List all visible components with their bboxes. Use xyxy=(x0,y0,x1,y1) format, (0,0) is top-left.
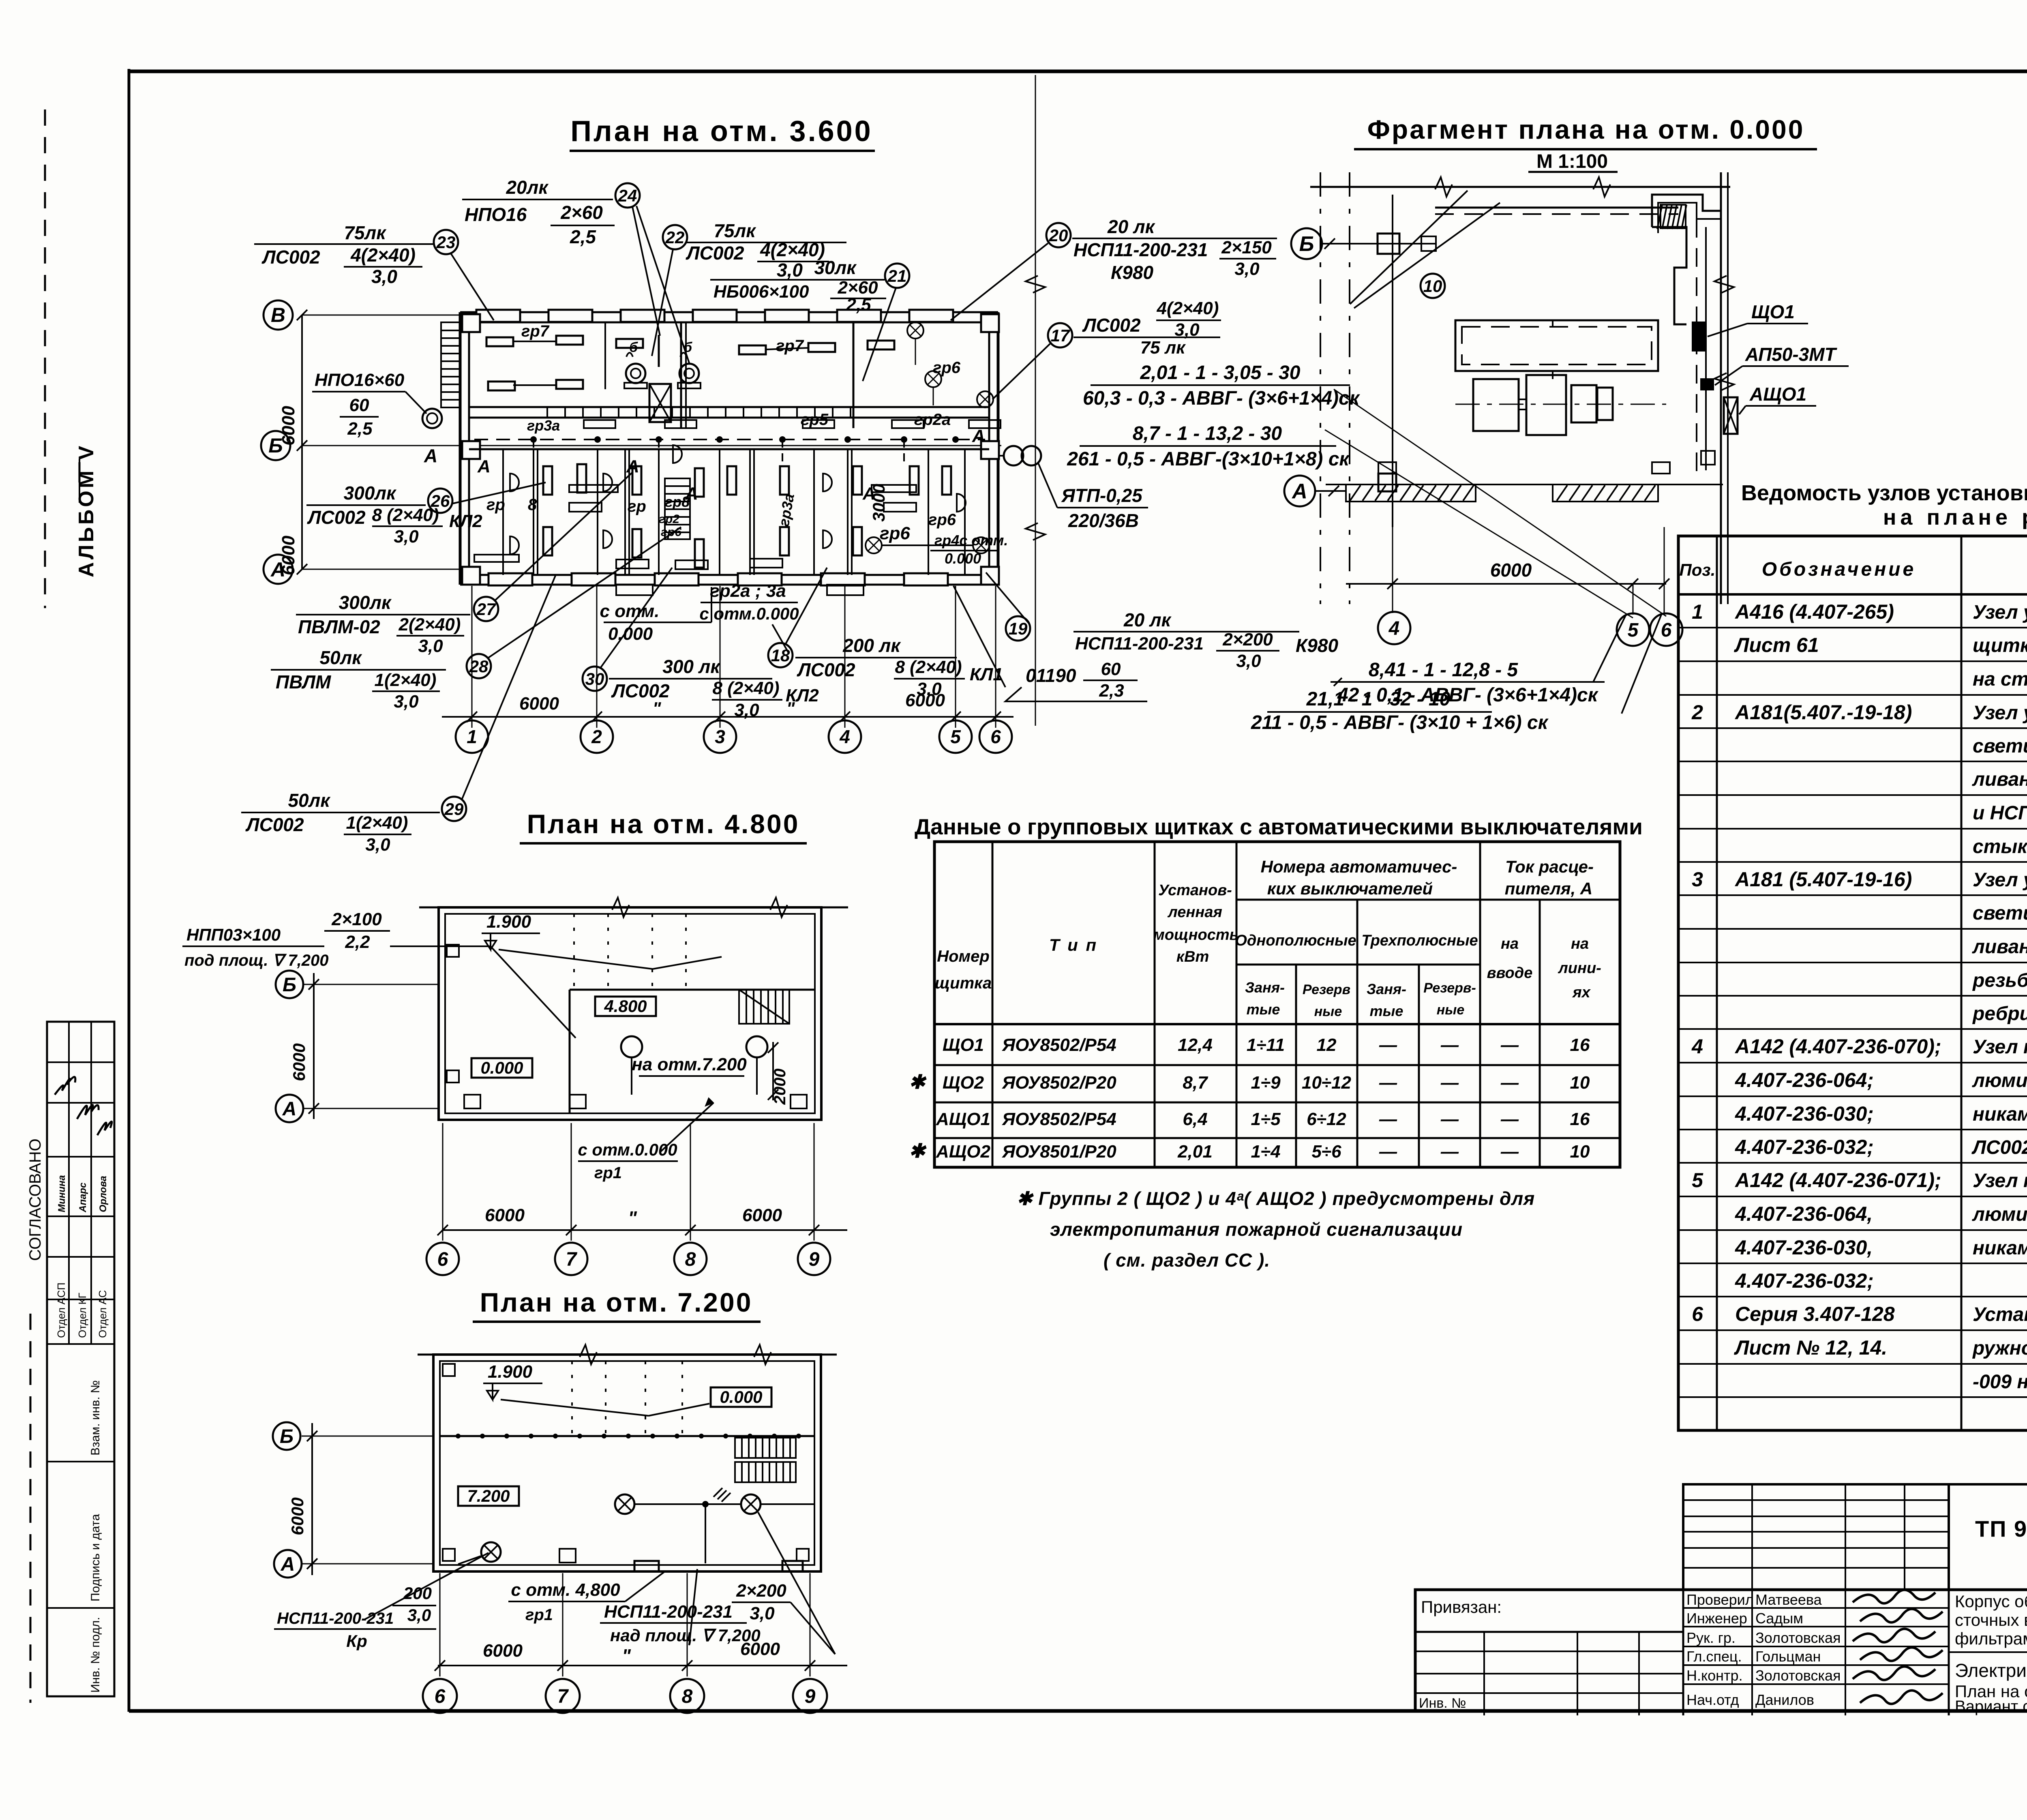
fragment grid circle A xyxy=(1284,476,1315,506)
svg-text:План на отм. 4.800: План на отм. 4.800 xyxy=(527,809,800,839)
svg-text:4.800: 4.800 xyxy=(604,997,647,1016)
title block signatures xyxy=(1853,1590,1935,1603)
svg-text:Фрагмент плана на отм. 0.00: Фрагмент плана на отм. 0.000 xyxy=(1367,114,1805,144)
callout circle 27 xyxy=(474,597,498,621)
svg-text:3,0: 3,0 xyxy=(371,266,397,287)
callout circle 21 xyxy=(885,264,909,288)
svg-text:4.407-236-064,: 4.407-236-064, xyxy=(1735,1203,1873,1225)
svg-text:КЛ2: КЛ2 xyxy=(786,686,819,705)
plan4800 axis circle 7 xyxy=(555,1243,587,1275)
svg-text:75лк: 75лк xyxy=(714,220,756,241)
svg-text:Привязан:: Привязан: xyxy=(1421,1597,1502,1616)
svg-text:—: — xyxy=(1500,1073,1519,1093)
plan7200 partitions dashed xyxy=(571,1361,573,1436)
title block small revision table xyxy=(1683,1484,1949,1590)
svg-text:—: — xyxy=(1440,1109,1459,1129)
svg-text:2×200: 2×200 xyxy=(736,1581,786,1601)
svg-text:Вариант с 4 вакуум-фильтрами: Вариант с 4 вакуум-фильтрами xyxy=(1955,1698,2027,1715)
plan4800 axis circle 9 xyxy=(798,1243,830,1275)
svg-text:АЩО1: АЩО1 xyxy=(1749,384,1806,405)
svg-text:28: 28 xyxy=(469,657,489,676)
svg-text:✱ Группы 2 ( ЩО2 ) и 4ᵃ( А: ✱ Группы 2 ( ЩО2 ) и 4ᵃ( АЩО2 ) предусмо… xyxy=(1017,1188,1535,1209)
svg-text:Б: Б xyxy=(268,434,283,457)
fragment axis circle 5 xyxy=(1617,613,1649,646)
svg-text:": " xyxy=(628,1207,637,1228)
svg-text:6: 6 xyxy=(990,726,1001,747)
svg-text:7: 7 xyxy=(557,1686,569,1707)
svg-text:Т и п: Т и п xyxy=(1049,935,1098,954)
grid circle V xyxy=(264,300,293,330)
svg-text:✱: ✱ xyxy=(909,1140,927,1162)
svg-text:гр1: гр1 xyxy=(594,1164,622,1182)
svg-text:4.407-236-064;: 4.407-236-064; xyxy=(1735,1069,1874,1091)
svg-text:Рук. гр.: Рук. гр. xyxy=(1686,1629,1736,1646)
fragment right wall xyxy=(1720,172,1722,604)
callout circle 20 xyxy=(1046,223,1071,247)
svg-text:ЩО1: ЩО1 xyxy=(943,1035,984,1055)
svg-text:Корпус обезвоживания осадка: Корпус обезвоживания осадка xyxy=(1955,1592,2027,1611)
middle table grid xyxy=(934,842,1620,1167)
svg-text:АЩО1: АЩО1 xyxy=(936,1109,990,1129)
svg-text:Взам. инв. №: Взам. инв. № xyxy=(89,1380,102,1456)
svg-text:гр3а: гр3а xyxy=(776,492,797,527)
svg-text:на: на xyxy=(1501,935,1519,952)
svg-text:12: 12 xyxy=(1317,1035,1337,1055)
svg-text:б: б xyxy=(629,340,638,355)
svg-text:1÷11: 1÷11 xyxy=(1247,1035,1285,1055)
svg-text:6000: 6000 xyxy=(483,1641,523,1661)
svg-text:с отм. 4,800: с отм. 4,800 xyxy=(511,1580,620,1600)
svg-text:ких выключателей: ких выключателей xyxy=(1267,879,1433,898)
entrance porches bottom xyxy=(616,585,653,595)
svg-text:ЯОУ8501/Р20: ЯОУ8501/Р20 xyxy=(1002,1142,1116,1162)
svg-text:0.000: 0.000 xyxy=(480,1058,523,1077)
stamp signatures xyxy=(55,1077,75,1095)
svg-text:2×200: 2×200 xyxy=(1222,630,1273,650)
fragment top wall line xyxy=(1310,186,1730,188)
svg-text:НСП11-200-231: НСП11-200-231 xyxy=(277,1610,394,1627)
svg-text:2,3: 2,3 xyxy=(1099,681,1124,701)
svg-text:тые: тые xyxy=(1247,1001,1280,1018)
svg-text:": " xyxy=(622,1645,631,1666)
svg-text:План на отм. 3.600: План на отм. 3.600 xyxy=(570,115,872,148)
svg-text:гр5: гр5 xyxy=(801,411,829,429)
svg-text:6÷12: 6÷12 xyxy=(1307,1109,1346,1129)
plan4800 level box 0.000 xyxy=(471,1058,532,1078)
main plan bottom axis lines and dimension xyxy=(471,586,473,728)
callout circle 28 xyxy=(467,654,491,678)
svg-text:211 - 0,5 - АВВГ- (3×10 + 1×6): 211 - 0,5 - АВВГ- (3×10 + 1×6) ск xyxy=(1251,712,1549,733)
svg-text:3,0: 3,0 xyxy=(365,835,390,855)
plan7200 door notches bottom xyxy=(634,1561,659,1571)
leader 20 xyxy=(951,243,1048,320)
plan7200 stairs xyxy=(735,1438,796,1458)
svg-text:Лист 61: Лист 61 xyxy=(1734,634,1819,656)
svg-text:гр6: гр6 xyxy=(661,525,681,539)
plan4800 stairs xyxy=(739,990,789,1024)
svg-text:3: 3 xyxy=(715,726,725,747)
svg-text:В: В xyxy=(271,304,285,326)
svg-text:лини-: лини- xyxy=(1558,960,1601,977)
svg-text:тые: тые xyxy=(1370,1003,1403,1019)
fragment floor line and hatch xyxy=(1326,484,1723,485)
svg-text:Обозначение: Обозначение xyxy=(1762,559,1916,580)
svg-text:2: 2 xyxy=(591,726,602,747)
svg-text:Номер: Номер xyxy=(937,948,990,965)
svg-text:8 (2×40): 8 (2×40) xyxy=(712,678,779,698)
svg-text:А: А xyxy=(972,426,985,446)
svg-text:Золотовская: Золотовская xyxy=(1755,1629,1841,1646)
svg-text:ребристых плит.: ребристых плит. xyxy=(1972,1003,2027,1025)
svg-text:ЛС002 (2×80): ЛС002 (2×80) xyxy=(1971,1137,2027,1158)
svg-text:6000: 6000 xyxy=(485,1205,525,1225)
plan7200 grid circle A xyxy=(274,1550,302,1578)
svg-text:на: на xyxy=(1571,935,1589,952)
plan7200 corner boxes xyxy=(443,1364,455,1376)
svg-text:Электрическое освещение.: Электрическое освещение. xyxy=(1955,1660,2027,1681)
title block description xyxy=(1949,1651,2027,1653)
svg-text:Ток расце-: Ток расце- xyxy=(1505,857,1594,876)
svg-text:8 (2×40): 8 (2×40) xyxy=(372,505,439,525)
svg-text:ЛС002: ЛС002 xyxy=(261,247,320,268)
leader 01190 xyxy=(954,586,1005,687)
svg-text:2,01: 2,01 xyxy=(1177,1142,1213,1162)
svg-text:1: 1 xyxy=(1692,600,1703,623)
svg-text:ЯОУ8502/Р54: ЯОУ8502/Р54 xyxy=(1002,1109,1116,1129)
svg-text:3,0: 3,0 xyxy=(1236,651,1261,671)
svg-text:Золотовская: Золотовская xyxy=(1755,1667,1841,1684)
svg-text:Инв. №: Инв. № xyxy=(1419,1696,1466,1711)
plan7200 grid circle B xyxy=(273,1422,300,1450)
svg-text:8: 8 xyxy=(528,496,537,514)
axis circle 5 xyxy=(939,720,972,753)
svg-text:6: 6 xyxy=(435,1686,446,1707)
svg-text:ЛС002: ЛС002 xyxy=(686,242,744,264)
left margin stamp table xyxy=(47,1022,114,1696)
svg-text:24: 24 xyxy=(618,186,637,205)
svg-text:А: А xyxy=(477,457,491,476)
svg-text:2×150: 2×150 xyxy=(1221,238,1272,257)
svg-text:9: 9 xyxy=(809,1249,820,1270)
svg-text:2,5: 2,5 xyxy=(570,226,596,247)
svg-text:22: 22 xyxy=(665,228,685,247)
svg-text:220/36В: 220/36В xyxy=(1068,510,1139,531)
svg-text:А: А xyxy=(1291,480,1307,503)
svg-text:гр: гр xyxy=(628,497,646,515)
plan7200 level box 0.000 xyxy=(711,1387,771,1407)
title block staff rows xyxy=(1683,1607,1949,1609)
plan4800 interior walls xyxy=(570,989,815,991)
svg-text:6,4: 6,4 xyxy=(1183,1109,1207,1129)
svg-text:21,1 - 1 - 32 - 10: 21,1 - 1 - 32 - 10 xyxy=(1306,688,1451,710)
svg-text:вводе: вводе xyxy=(1487,965,1533,982)
fragment dimension 6000 xyxy=(1346,583,1666,585)
svg-text:НПП03×100: НПП03×100 xyxy=(186,925,281,944)
fragment circled 10 xyxy=(1421,274,1445,298)
svg-text:гр6: гр6 xyxy=(880,523,910,543)
svg-text:Б: Б xyxy=(1299,232,1314,256)
svg-text:6000: 6000 xyxy=(288,1497,307,1535)
svg-text:гр2: гр2 xyxy=(659,512,679,526)
svg-text:6000: 6000 xyxy=(740,1639,780,1659)
svg-text:300лк: 300лк xyxy=(339,592,392,613)
svg-text:фильтрами БСХОУ-40-3.: фильтрами БСХОУ-40-3. xyxy=(1955,1629,2027,1648)
plan7200 lamps xyxy=(615,1494,634,1514)
svg-text:Инв. № подл.: Инв. № подл. xyxy=(89,1617,102,1693)
plan4800 axis circle 8 xyxy=(674,1243,707,1275)
interior stair hatch xyxy=(665,478,690,539)
title block left privyazan xyxy=(1415,1631,1683,1633)
svg-text:—: — xyxy=(1379,1142,1397,1162)
svg-text:20лк: 20лк xyxy=(506,177,549,198)
plan7200 axis circle 8 xyxy=(670,1679,704,1713)
fragment grid dashed verticals xyxy=(1320,172,1321,604)
svg-text:Номера автоматичес-: Номера автоматичес- xyxy=(1261,857,1457,876)
svg-text:НПО16: НПО16 xyxy=(465,204,527,225)
svg-text:Гольцман: Гольцман xyxy=(1755,1648,1821,1665)
fragment axis B line xyxy=(1322,243,1435,244)
svg-text:НПО16×60: НПО16×60 xyxy=(315,370,405,390)
svg-text:ЛС002: ЛС002 xyxy=(307,507,366,528)
panel AShchO1 crossbox xyxy=(1724,397,1738,434)
fragment column axis 4 vertical xyxy=(1392,195,1393,527)
svg-text:гр7: гр7 xyxy=(776,337,804,355)
plan4800 dashed partitions xyxy=(573,914,575,990)
svg-text:60: 60 xyxy=(1101,659,1121,679)
fragment crane beam dashed rect xyxy=(1455,320,1658,371)
svg-text:5: 5 xyxy=(1692,1169,1703,1192)
svg-text:17: 17 xyxy=(1051,326,1070,345)
svg-text:гр7: гр7 xyxy=(521,322,550,340)
svg-text:КЛ2: КЛ2 xyxy=(449,511,482,531)
svg-text:ЩО2: ЩО2 xyxy=(943,1073,984,1093)
plan7200 axis circle 6 xyxy=(423,1679,457,1713)
plan7200 dim line bottom xyxy=(438,1665,847,1666)
svg-text:гр4с отм.: гр4с отм. xyxy=(934,532,1008,549)
svg-text:75лк: 75лк xyxy=(344,222,387,243)
svg-text:кВт: кВт xyxy=(1176,948,1209,965)
svg-text:ЛС002: ЛС002 xyxy=(1082,315,1141,336)
leader 30 xyxy=(601,568,672,667)
plan4800 left dim xyxy=(313,973,315,1119)
svg-text:Резерв-: Резерв- xyxy=(1423,980,1476,996)
svg-text:Б: Б xyxy=(283,974,296,996)
svg-text:гр: гр xyxy=(486,496,505,514)
svg-text:ЯТП-0,25: ЯТП-0,25 xyxy=(1061,485,1143,506)
svg-text:А142 (4.407-236-070);: А142 (4.407-236-070); xyxy=(1734,1035,1941,1058)
svg-text:гр3а: гр3а xyxy=(527,417,560,434)
svg-text:А: А xyxy=(424,445,437,466)
svg-text:гр1: гр1 xyxy=(525,1606,553,1624)
svg-text:Трехполюсные: Трехполюсные xyxy=(1361,932,1478,949)
svg-text:Минина: Минина xyxy=(56,1175,67,1212)
svg-text:на плане расположения: на плане расположения xyxy=(1883,505,2027,529)
svg-text:3: 3 xyxy=(1692,868,1703,891)
svg-text:А142 (4.407-236-071);: А142 (4.407-236-071); xyxy=(1734,1169,1941,1192)
leader YaTP xyxy=(1038,462,1057,508)
svg-text:—: — xyxy=(1379,1073,1397,1093)
section line right of main plan xyxy=(1035,75,1036,726)
plan7200 interior corridor line xyxy=(440,1435,814,1437)
svg-text:8 (2×40): 8 (2×40) xyxy=(895,657,962,677)
fragment column squares xyxy=(1378,234,1399,254)
grid circle B xyxy=(261,431,290,460)
svg-text:2,5: 2,5 xyxy=(347,419,373,439)
svg-text:—: — xyxy=(1440,1035,1459,1055)
leader 28 xyxy=(489,527,681,658)
svg-text:": " xyxy=(653,699,662,718)
svg-text:2,5: 2,5 xyxy=(846,295,871,315)
main plan building walls xyxy=(460,311,998,313)
svg-text:НБ006×100: НБ006×100 xyxy=(714,282,809,302)
plan4800 dim 2000 xyxy=(772,1042,774,1100)
svg-text:Нач.отд: Нач.отд xyxy=(1686,1691,1739,1708)
svg-text:10: 10 xyxy=(1570,1142,1590,1162)
plan4800 grid circle B xyxy=(276,971,303,998)
leader 24 xyxy=(632,207,660,336)
svg-text:4(2×40): 4(2×40) xyxy=(350,244,416,266)
svg-text:200 лк: 200 лк xyxy=(842,635,901,656)
small lamp rects lower center xyxy=(569,503,602,512)
vedomost table grid xyxy=(1678,536,2027,1430)
svg-text:под площ. ∇ 7,200: под площ. ∇ 7,200 xyxy=(184,952,329,969)
svg-text:8,41 - 1 - 12,8 - 5: 8,41 - 1 - 12,8 - 5 xyxy=(1369,659,1519,681)
svg-text:ТП 902-5-36.86: ТП 902-5-36.86 xyxy=(1975,1516,2027,1541)
fragment upper right wall complex xyxy=(1652,195,1721,227)
vertical fluorescent lamps lower rooms xyxy=(543,466,552,495)
svg-text:гр2а ; 3а: гр2а ; 3а xyxy=(710,581,786,601)
callout circle 30 xyxy=(583,667,607,691)
entry lamp circle xyxy=(422,409,442,428)
plan7200 top line break xyxy=(418,1354,837,1356)
svg-text:резьбе под перекрытием из: резьбе под перекрытием из xyxy=(1972,970,2027,991)
svg-text:✱: ✱ xyxy=(909,1072,927,1093)
svg-text:гр8: гр8 xyxy=(665,493,690,510)
svg-text:2(2×40): 2(2×40) xyxy=(399,615,461,635)
svg-text:Орлова: Орлова xyxy=(98,1176,109,1212)
fragment B axis leaders crossing xyxy=(1334,389,1666,616)
svg-text:мощность: мощность xyxy=(1153,926,1239,943)
svg-text:4: 4 xyxy=(839,726,850,747)
svg-text:никами ЛС002(2×40),: никами ЛС002(2×40), xyxy=(1973,1104,2027,1125)
svg-text:К980: К980 xyxy=(1111,262,1153,283)
svg-text:( см. раздел СС ).: ( см. раздел СС ). xyxy=(1103,1250,1270,1271)
svg-text:ные: ные xyxy=(1437,1002,1464,1018)
fragment grid circle B xyxy=(1291,228,1322,259)
svg-text:А: А xyxy=(270,558,285,581)
svg-text:20 лк: 20 лк xyxy=(1123,609,1172,630)
corridor cable dashed line xyxy=(474,439,985,440)
svg-text:75 лк: 75 лк xyxy=(1140,338,1187,358)
svg-text:4(2×40): 4(2×40) xyxy=(1157,298,1219,318)
drawing frame xyxy=(128,69,131,1712)
svg-text:2×60: 2×60 xyxy=(560,202,603,223)
title block main outline xyxy=(1415,1590,2027,1711)
svg-text:А181(5.407.-19-18): А181(5.407.-19-18) xyxy=(1734,701,1912,724)
svg-text:М 1:100: М 1:100 xyxy=(1536,151,1608,172)
svg-text:2000: 2000 xyxy=(771,1069,789,1105)
svg-text:20: 20 xyxy=(1049,226,1068,245)
svg-text:10: 10 xyxy=(1423,277,1442,296)
svg-text:19: 19 xyxy=(1009,619,1028,638)
svg-text:6: 6 xyxy=(1692,1303,1703,1325)
plan7200 left dim xyxy=(311,1423,313,1575)
svg-text:ливания НСП11-200-234 на: ливания НСП11-200-234 на xyxy=(1972,936,2027,958)
svg-text:на стене.: на стене. xyxy=(1973,669,2027,690)
svg-text:4: 4 xyxy=(1691,1035,1703,1058)
svg-text:щитков ЯОУ8501 и ЯОУ8502: щитков ЯОУ8501 и ЯОУ8502 xyxy=(1973,635,2027,656)
svg-text:1: 1 xyxy=(467,726,477,747)
svg-text:ЛС002: ЛС002 xyxy=(245,814,304,835)
lower room partitions xyxy=(502,449,504,575)
svg-text:ЛС002: ЛС002 xyxy=(611,680,670,701)
incandescent lamps right room xyxy=(907,322,924,339)
svg-text:18: 18 xyxy=(771,646,790,665)
plan4800 lamp circles xyxy=(621,1036,642,1057)
svg-text:сточных вод с 6 вакуум -: сточных вод с 6 вакуум - xyxy=(1955,1610,2027,1629)
plan7200 leaders xyxy=(365,1553,489,1619)
sheet edge dashed marks left xyxy=(44,109,46,608)
svg-text:6: 6 xyxy=(437,1249,448,1270)
svg-text:НСП11-200-231: НСП11-200-231 xyxy=(1075,634,1204,654)
svg-text:20 лк: 20 лк xyxy=(1107,216,1156,237)
plan4800 dim line bottom xyxy=(442,1229,847,1231)
svg-text:ружного освещения РКУ01-250-: ружного освещения РКУ01-250- xyxy=(1972,1338,2027,1359)
svg-text:16: 16 xyxy=(1570,1109,1590,1129)
fragment cable risers dashed xyxy=(1552,371,1553,379)
axis circle 2 xyxy=(581,720,613,753)
ventilation units center xyxy=(626,364,645,383)
svg-text:ливания НСП20-500-111на крюке,: ливания НСП20-500-111на крюке, xyxy=(1972,769,2027,790)
leader 17 xyxy=(992,344,1050,399)
lower room shelves xyxy=(569,485,618,492)
svg-text:АЛЬБОМ V: АЛЬБОМ V xyxy=(75,444,98,577)
svg-text:А: А xyxy=(281,1554,295,1575)
svg-text:6000: 6000 xyxy=(1490,560,1532,581)
svg-text:гр6: гр6 xyxy=(933,359,961,377)
svg-text:А416 (4.407-265): А416 (4.407-265) xyxy=(1734,600,1894,623)
svg-text:ях: ях xyxy=(1572,984,1591,1001)
svg-text:4: 4 xyxy=(1388,618,1400,639)
plan4800 level box 4.800 xyxy=(595,997,656,1016)
svg-text:—: — xyxy=(1500,1142,1519,1162)
svg-text:—: — xyxy=(1379,1035,1397,1055)
svg-text:3,0: 3,0 xyxy=(777,259,803,281)
svg-text:9: 9 xyxy=(805,1686,816,1707)
fragment machine group xyxy=(1473,379,1519,431)
callout circle 17 xyxy=(1048,323,1072,347)
svg-text:—: — xyxy=(1379,1109,1397,1129)
svg-text:5÷6: 5÷6 xyxy=(1311,1142,1341,1162)
plan7200 building outline xyxy=(433,1355,821,1571)
plan4800 axis circle 6 xyxy=(426,1243,459,1275)
plan7200 level box 7.200 xyxy=(458,1486,519,1506)
svg-text:-009 на кронштейне К-II.: -009 на кронштейне К-II. xyxy=(1973,1371,2027,1393)
svg-text:1.900: 1.900 xyxy=(488,1362,533,1382)
leader 18 xyxy=(786,568,827,644)
svg-text:26: 26 xyxy=(431,491,450,510)
svg-text:Узел установки осветительных: Узел установки осветительных xyxy=(1973,602,2027,623)
svg-text:АП50-3МТ: АП50-3МТ xyxy=(1745,344,1838,365)
svg-text:А181 (5.407-19-16): А181 (5.407-19-16) xyxy=(1734,868,1912,891)
svg-text:6000: 6000 xyxy=(289,1043,309,1081)
svg-text:над площ. ∇ 7,200: над площ. ∇ 7,200 xyxy=(610,1626,761,1645)
fragment axis circle 4 xyxy=(1378,612,1410,644)
svg-text:Подпись и дата: Подпись и дата xyxy=(89,1514,102,1601)
svg-text:6: 6 xyxy=(1661,620,1672,641)
svg-text:3,0: 3,0 xyxy=(917,679,942,699)
callout circle 23 xyxy=(434,230,458,254)
